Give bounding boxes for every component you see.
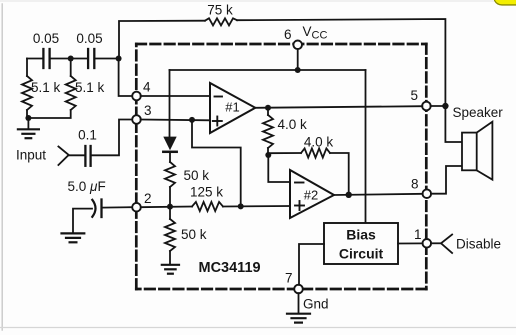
svg-text:0.1: 0.1 bbox=[78, 128, 97, 143]
svg-text:Speaker: Speaker bbox=[453, 105, 504, 120]
wire: VCC rail from pin 6 bbox=[297, 49, 299, 70]
wire: cap to pin 3 bbox=[91, 120, 132, 156]
node: 4.0k top junction bbox=[265, 105, 271, 111]
node: VCC rail junction bbox=[295, 67, 301, 73]
wire: ground to cap bbox=[73, 209, 92, 233]
wire: pin 4 to op-amp #1 inverting input bbox=[141, 95, 210, 97]
svg-text:1: 1 bbox=[414, 227, 422, 242]
svg-text:75 k: 75 k bbox=[207, 3, 233, 18]
wire: pin 5 to speaker node bbox=[431, 105, 446, 107]
wire: pin 1 to disable jack bbox=[431, 242, 441, 244]
op-amp #1 minus sign bbox=[215, 96, 223, 98]
wire: jack to cap bbox=[69, 154, 85, 156]
svg-text:3: 3 bbox=[144, 103, 152, 118]
op-amp #2 minus sign bbox=[295, 182, 304, 184]
svg-text:VCC: VCC bbox=[303, 24, 328, 42]
svg-text:Gnd: Gnd bbox=[303, 297, 329, 312]
IC boundary MC34119 (dashed) bbox=[136, 44, 426, 289]
ground (under 5.0uF) bbox=[62, 233, 85, 242]
svg-text:8: 8 bbox=[411, 177, 419, 192]
node: 50k junction on pin-2 rail bbox=[167, 204, 173, 210]
resistor 125 k bbox=[192, 202, 223, 211]
svg-text:2: 2 bbox=[144, 191, 152, 206]
wire: left leg down to resistor bbox=[26, 59, 28, 77]
svg-text:0.05: 0.05 bbox=[76, 31, 102, 46]
capacitor 0.1 bbox=[85, 146, 90, 166]
wire: cap chain row bbox=[27, 58, 43, 60]
svg-text:#1: #1 bbox=[225, 100, 239, 115]
svg-text:6: 6 bbox=[284, 27, 292, 42]
wire: pin 8 to speaker bottom terminal bbox=[431, 166, 462, 194]
wire: node to op-amp #2 inverting input bbox=[268, 155, 290, 182]
svg-text:Input: Input bbox=[16, 148, 46, 163]
op-amp #1 plus sign bbox=[213, 117, 222, 126]
svg-text:Bias: Bias bbox=[346, 227, 376, 243]
wire: 50k to pin-2 rail bbox=[169, 187, 171, 207]
capacitor 0.05 (right) bbox=[88, 49, 94, 68]
ground (pin 7) bbox=[287, 314, 310, 323]
capacitor 5.0 uF (straight plate) bbox=[100, 200, 102, 218]
svg-text:MC34119: MC34119 bbox=[199, 260, 261, 276]
svg-text:5.1 k: 5.1 k bbox=[75, 80, 105, 95]
wire: rail down to diode bbox=[169, 70, 171, 137]
bias circuit block bbox=[324, 223, 398, 264]
svg-text:4.0 k: 4.0 k bbox=[278, 117, 308, 132]
wire: pin 3 to op-amp #1 non-inverting input bbox=[141, 119, 210, 122]
node: caps junction bbox=[68, 56, 74, 62]
resistor 75 k bbox=[205, 18, 237, 25]
diode cathode bar bbox=[163, 151, 176, 154]
svg-text:50 k: 50 k bbox=[181, 227, 207, 242]
page top edge line bbox=[0, 0, 516, 2]
wire: down to pin 4 bbox=[119, 59, 133, 97]
pin 1 bbox=[423, 239, 432, 248]
node: feedback junction bbox=[238, 203, 244, 209]
op-amp #2 plus sign bbox=[295, 201, 304, 210]
svg-text:125 k: 125 k bbox=[190, 185, 223, 200]
pin 6 bbox=[293, 41, 302, 50]
resistor 50 k (upper) bbox=[165, 162, 175, 187]
svg-text:0.05: 0.05 bbox=[33, 31, 59, 46]
wire: diode to 50k bbox=[169, 153, 171, 162]
pin 8 bbox=[423, 189, 432, 198]
wire: feedback to amp2 output bbox=[330, 153, 349, 195]
wire: lead into 4.0k vertical bbox=[267, 108, 269, 115]
yellow tab (top right) bbox=[494, 0, 516, 6]
wire: second 5.1k top lead bbox=[70, 59, 72, 77]
resistor 4.0 k (feedback) bbox=[301, 148, 330, 157]
resistor 4.0 k (vertical) bbox=[263, 115, 273, 148]
pin 3 bbox=[132, 115, 141, 124]
op-amp U2 (#2) bbox=[290, 170, 334, 218]
svg-text:7: 7 bbox=[285, 271, 293, 286]
op-amp U1 (#1) bbox=[210, 83, 255, 133]
wire: VCC horizontal rail bbox=[170, 69, 366, 71]
wire: 4.0k bottom lead bbox=[267, 148, 269, 155]
wire: pin 2 rail bbox=[141, 206, 192, 209]
svg-text:5: 5 bbox=[411, 88, 419, 103]
svg-text:5.1 k: 5.1 k bbox=[31, 80, 61, 95]
pin 2 bbox=[132, 203, 141, 212]
wire: cap to pin 2 bbox=[102, 206, 133, 208]
wire: top feedback from speaker node to left network bbox=[237, 19, 445, 106]
pin 5 bbox=[422, 102, 431, 111]
page left edge line bbox=[1, 4, 3, 330]
svg-text:Disable: Disable bbox=[456, 237, 501, 252]
resistor 5.1 k (left) bbox=[22, 76, 32, 110]
wire: bias to pin 1 bbox=[398, 242, 423, 244]
wire: bottom link of 5.1k pair bbox=[27, 110, 71, 118]
input jack bbox=[58, 147, 68, 166]
node: amp2 inverting node bbox=[265, 152, 271, 158]
wire: 125k to op-amp #2 plus input bbox=[223, 205, 290, 208]
page bottom edge line bbox=[0, 327, 516, 329]
svg-text:5.0 μF: 5.0 μF bbox=[68, 179, 106, 194]
wire: 50k leads to ground bbox=[169, 207, 171, 220]
wire: node to 4.0k feedback bbox=[268, 152, 301, 154]
wire: stub to ground bbox=[27, 118, 29, 129]
capacitor 0.05 (left) bbox=[43, 49, 49, 68]
resistor 50 k (lower) bbox=[165, 219, 175, 251]
disable jack bbox=[441, 235, 452, 254]
wire: speaker top terminal bbox=[445, 106, 462, 142]
wire: bias to pin 7 bbox=[299, 244, 324, 285]
ground (under 5.1k) bbox=[18, 129, 39, 138]
svg-text:#2: #2 bbox=[304, 188, 318, 203]
wire: op-amp #2 output to pin 8 bbox=[334, 194, 423, 195]
node: top-left junction at x118 bbox=[116, 56, 122, 62]
wire: op-amp #1 output to pin 5 bbox=[255, 106, 422, 108]
wire: pin 7 to ground bbox=[298, 293, 300, 313]
svg-text:50 k: 50 k bbox=[184, 168, 210, 183]
speaker bbox=[462, 133, 477, 171]
capacitor 5.0 uF (curved plate) bbox=[92, 200, 95, 217]
wire: rail down to bias circuit bbox=[365, 70, 367, 223]
svg-text:4: 4 bbox=[143, 80, 151, 95]
node: speaker top node bbox=[442, 103, 448, 109]
pin 7 bbox=[294, 285, 303, 294]
svg-text:4.0 k: 4.0 k bbox=[304, 135, 334, 150]
pin 4 bbox=[132, 92, 141, 101]
node: feedback tap on output bbox=[346, 192, 352, 198]
node: amp1 + input junction bbox=[189, 117, 195, 123]
ground (under lower 50k) bbox=[162, 265, 179, 274]
wire: dogleg from + node down to 125k right node bbox=[192, 120, 241, 206]
node: ground junction bbox=[25, 115, 31, 121]
svg-text:Circuit: Circuit bbox=[339, 246, 384, 262]
resistor 5.1 k (right) bbox=[66, 76, 76, 110]
diode bbox=[163, 137, 176, 151]
